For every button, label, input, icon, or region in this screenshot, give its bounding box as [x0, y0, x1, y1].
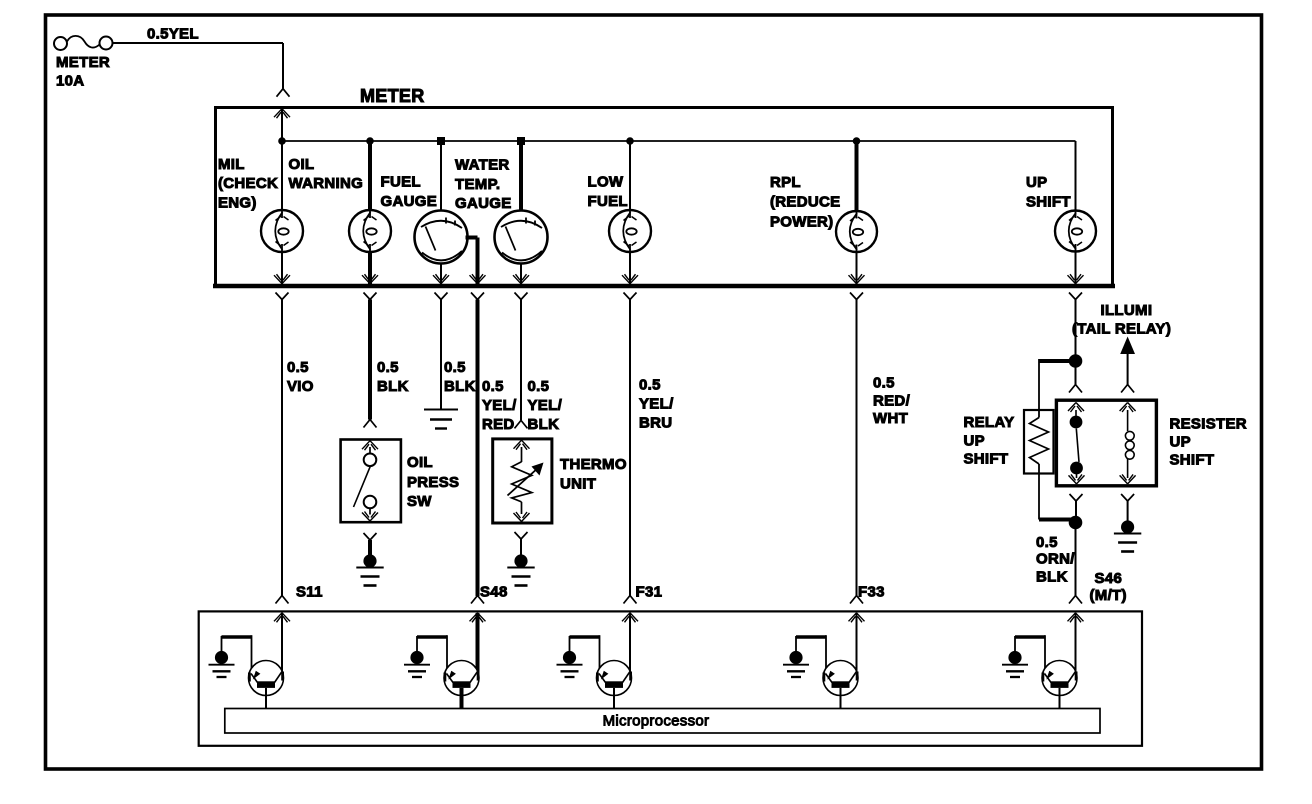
- svg-text:0.5: 0.5: [639, 376, 661, 393]
- svg-text:RELAY: RELAY: [964, 414, 1015, 431]
- ground: [1008, 651, 1021, 664]
- resistor THERMO UNIT: [493, 439, 552, 523]
- svg-text:OIL: OIL: [289, 156, 315, 173]
- gauge WATER TEMP: [495, 211, 548, 264]
- switch OIL PRESS SW: [341, 440, 401, 523]
- svg-text:THERMO: THERMO: [560, 456, 627, 473]
- wire to tail relay: [1120, 337, 1135, 355]
- fuse METER 10A: [54, 36, 113, 50]
- ground: [410, 651, 423, 664]
- svg-text:YEL/: YEL/: [528, 397, 563, 414]
- switch contacts: [1068, 403, 1084, 413]
- wire emitter/ground loop: [796, 635, 826, 639]
- node F31 connector: [624, 596, 637, 604]
- svg-text:ILLUMI: ILLUMI: [1101, 302, 1153, 319]
- wire emitter/ground loop: [222, 635, 252, 639]
- node S46 connector: [1069, 596, 1082, 604]
- wire up shift drop: [1075, 300, 1077, 385]
- wire 0.5 RED/WHT (F33): [856, 300, 858, 597]
- lamp OIL WARNING: [349, 210, 391, 252]
- wire relay branch: [1039, 359, 1076, 363]
- svg-text:OIL: OIL: [407, 454, 433, 471]
- wire UP SHIFT: [1075, 251, 1077, 284]
- svg-text:0.5: 0.5: [482, 378, 504, 395]
- wire FUEL GAUGE: [440, 141, 442, 211]
- node S11 connector: [276, 596, 289, 604]
- wire collector feed: [629, 613, 631, 672]
- wire emitter/ground loop: [417, 635, 447, 639]
- wire bus: [282, 140, 1076, 142]
- svg-text:FUEL: FUEL: [381, 174, 421, 191]
- node junction: [1069, 516, 1083, 530]
- wire collector feed: [856, 613, 858, 672]
- wire 0.5 VIO (S11): [281, 300, 283, 597]
- svg-text:BLK: BLK: [1036, 569, 1068, 586]
- wire WATER TEMP: [519, 141, 523, 211]
- wire collector feed: [1075, 613, 1077, 672]
- svg-text:BLK: BLK: [444, 378, 476, 395]
- svg-text:0.5: 0.5: [287, 359, 309, 376]
- svg-text:(REDUCE: (REDUCE: [770, 193, 840, 210]
- svg-text:RESISTER: RESISTER: [1170, 415, 1247, 432]
- svg-text:MIL: MIL: [218, 156, 245, 173]
- connector meter pin x=856.5: [849, 274, 865, 284]
- svg-text:TEMP.: TEMP.: [455, 176, 500, 193]
- transistor: [597, 661, 632, 696]
- svg-text:SW: SW: [407, 493, 432, 510]
- transistor: [249, 661, 284, 696]
- svg-text:0.5: 0.5: [377, 359, 399, 376]
- svg-text:S48: S48: [480, 583, 508, 600]
- svg-text:BLK: BLK: [377, 378, 409, 395]
- svg-text:(TAIL RELAY): (TAIL RELAY): [1072, 320, 1171, 337]
- relay RELAY UP SHIFT coil: [1024, 410, 1054, 474]
- svg-text:ORN/: ORN/: [1036, 551, 1075, 568]
- svg-text:UP: UP: [1026, 174, 1047, 191]
- svg-text:SHIFT: SHIFT: [1026, 193, 1071, 210]
- wire LOW FUEL: [629, 141, 631, 210]
- node junction LOW FUEL: [626, 137, 634, 145]
- svg-text:0.5: 0.5: [1036, 534, 1058, 551]
- node junction RPL: [853, 137, 861, 145]
- connector meter pin x=630: [622, 274, 638, 284]
- svg-text:SHIFT: SHIFT: [1170, 451, 1215, 468]
- svg-text:FUEL: FUEL: [588, 193, 628, 210]
- svg-text:WARNING: WARNING: [289, 175, 364, 192]
- wire OIL WARNING: [368, 141, 372, 210]
- wire thermo to ground: [515, 532, 528, 539]
- connector meter pin x=370: [362, 274, 378, 284]
- ground: [563, 651, 576, 664]
- svg-text:Microprocessor: Microprocessor: [603, 713, 710, 730]
- wire base: [265, 688, 267, 709]
- wire 0.5 ORN/BLK (S46): [1075, 523, 1077, 597]
- svg-text:F33: F33: [858, 583, 885, 600]
- ground: [215, 651, 228, 664]
- ground: [363, 554, 376, 567]
- lamp RPL (REDUCE POWER): [836, 211, 877, 252]
- wire 0.5 BLK to ground: [440, 300, 442, 410]
- node junction MIL: [278, 137, 286, 145]
- wire base: [460, 688, 464, 709]
- wire 0.5 BLK (oil press): [368, 300, 372, 420]
- svg-text:0.5: 0.5: [528, 378, 550, 395]
- svg-text:GAUGE: GAUGE: [455, 195, 512, 212]
- wire emitter/ground loop: [1015, 635, 1045, 639]
- svg-text:RPL: RPL: [770, 174, 801, 191]
- svg-text:S46: S46: [1095, 570, 1123, 587]
- resister RESISTER UP SHIFT box: [1056, 400, 1156, 486]
- lamp MIL (CHECK ENG): [261, 210, 303, 252]
- svg-text:S11: S11: [296, 583, 323, 600]
- svg-text:WATER: WATER: [455, 156, 510, 173]
- wire base: [1059, 688, 1061, 709]
- wire collector feed: [281, 613, 283, 672]
- svg-text:LOW: LOW: [588, 174, 624, 191]
- transistor: [823, 661, 858, 696]
- svg-text:0.5: 0.5: [444, 359, 466, 376]
- wire 0.5 YEL/BRU (F31): [629, 300, 631, 597]
- svg-text:BRU: BRU: [639, 414, 672, 431]
- node junction FUEL: [437, 137, 445, 145]
- node F33 connector: [850, 596, 863, 604]
- wire RPL: [855, 141, 859, 212]
- svg-text:UP: UP: [964, 432, 985, 449]
- wire fuel gauge tap: [466, 236, 478, 240]
- connector meter pin x=282: [274, 274, 290, 284]
- svg-text:WHT: WHT: [873, 410, 908, 427]
- wire 0.5 YEL/BLK (thermo): [520, 300, 522, 421]
- wire MIL: [281, 109, 283, 210]
- svg-text:RED: RED: [482, 416, 515, 433]
- meter unit box: [216, 108, 1113, 286]
- wire emitter/ground loop: [570, 635, 600, 639]
- wire collector feed: [476, 613, 480, 672]
- svg-text:POWER): POWER): [770, 213, 833, 230]
- svg-text:10A: 10A: [56, 73, 84, 90]
- svg-text:VIO: VIO: [287, 378, 314, 395]
- connector meter pin x=477.5: [470, 274, 486, 284]
- svg-text:METER: METER: [56, 54, 110, 71]
- node junction WATER: [517, 137, 525, 145]
- wire 0.5 YEL/RED (S48): [476, 300, 480, 597]
- wire base: [840, 688, 842, 709]
- connector meter pin x=521: [513, 274, 529, 284]
- wire sw to ground: [364, 533, 377, 540]
- transistor: [444, 661, 479, 696]
- lamp UP SHIFT: [1055, 211, 1096, 252]
- connector below resister: [1070, 494, 1083, 501]
- ground: [514, 554, 527, 567]
- wire base: [613, 688, 615, 709]
- svg-text:BLK: BLK: [528, 416, 560, 433]
- svg-text:METER: METER: [360, 86, 425, 106]
- node junction: [1069, 354, 1083, 368]
- ground: [1121, 520, 1134, 533]
- svg-text:UNIT: UNIT: [560, 475, 596, 492]
- node S48 connector: [471, 596, 484, 604]
- coil winding: [1120, 403, 1136, 413]
- connector resister pins: [1069, 385, 1082, 393]
- node junction OIL: [366, 137, 374, 145]
- svg-text:YEL/: YEL/: [482, 397, 517, 414]
- microprocessor unit box: [199, 611, 1142, 745]
- svg-text:YEL/: YEL/: [639, 395, 674, 412]
- svg-text:F31: F31: [636, 583, 663, 600]
- ground: [789, 651, 802, 664]
- svg-text:(CHECK: (CHECK: [218, 175, 278, 192]
- gauge FUEL: [415, 211, 468, 264]
- svg-text:ENG): ENG): [218, 195, 257, 212]
- svg-text:GAUGE: GAUGE: [381, 193, 438, 210]
- svg-text:UP: UP: [1170, 433, 1191, 450]
- ground: [424, 409, 458, 411]
- connector oil press sw: [364, 420, 377, 428]
- svg-text:0.5: 0.5: [873, 375, 895, 392]
- connector meter pin x=441: [433, 274, 449, 284]
- transistor: [1042, 661, 1077, 696]
- svg-text:RED/: RED/: [873, 392, 911, 409]
- connector into METER: [277, 89, 290, 97]
- svg-text:(M/T): (M/T): [1090, 587, 1127, 604]
- Microprocessor inner box: [225, 709, 1100, 734]
- svg-text:PRESS: PRESS: [407, 474, 459, 491]
- svg-text:SHIFT: SHIFT: [964, 450, 1009, 467]
- svg-text:0.5YEL: 0.5YEL: [147, 26, 199, 43]
- wire 0.5YEL feed: [113, 42, 284, 44]
- connector meter pin x=1075.5: [1068, 274, 1084, 284]
- lamp LOW FUEL: [609, 210, 651, 252]
